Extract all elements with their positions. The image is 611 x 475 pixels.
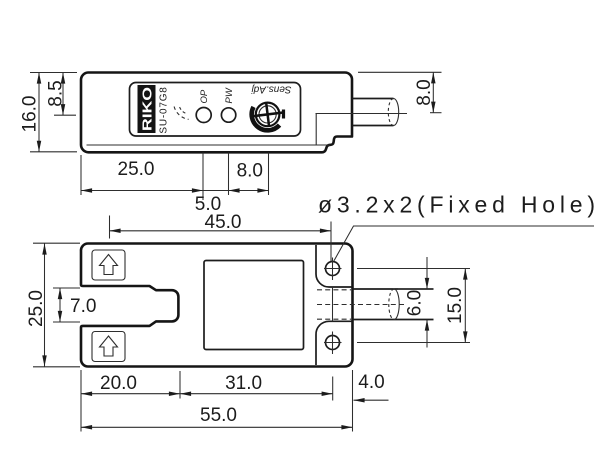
- hidden cable lines (dashed): [317, 290, 406, 319]
- arrow box bottom: [92, 332, 125, 362]
- svg-text:ø3.2x2(Fixed Hole): ø3.2x2(Fixed Hole): [318, 192, 595, 218]
- dim 8.0 (cable, right): [358, 72, 442, 112]
- svg-text:RIKO: RIKO: [141, 87, 155, 131]
- svg-text:OP: OP: [199, 89, 210, 103]
- fixed hole callout: [318, 192, 595, 261]
- PW LED: [221, 108, 235, 122]
- dim 5.0: [195, 191, 229, 216]
- svg-text:25.0: 25.0: [118, 159, 155, 180]
- OP LED: [196, 108, 211, 123]
- svg-text:15.0: 15.0: [445, 287, 466, 324]
- svg-text:25.0: 25.0: [26, 290, 47, 327]
- dim 45.0: [110, 212, 332, 261]
- sensing window: [204, 261, 304, 350]
- svg-text:55.0: 55.0: [200, 405, 237, 426]
- svg-text:20.0: 20.0: [100, 373, 137, 394]
- svg-text:8.0: 8.0: [414, 79, 435, 105]
- dim 25.0 (top view): [81, 153, 203, 201]
- label plate: [130, 83, 301, 137]
- dim 8.5: [46, 73, 77, 116]
- svg-text:16.0: 16.0: [20, 96, 41, 133]
- dim 25.0 (bottom view): [26, 243, 80, 367]
- dim 4.0: [353, 370, 389, 432]
- potentiometer: [252, 100, 286, 130]
- top view cable centerline: [316, 113, 408, 115]
- fixed hole bottom: [324, 332, 342, 355]
- dim 20.0: [81, 370, 180, 432]
- svg-text:6.0: 6.0: [405, 290, 426, 316]
- emitter arcs: [174, 107, 189, 120]
- dim 16.0: [20, 73, 78, 152]
- svg-text:4.0: 4.0: [358, 372, 384, 393]
- svg-text:8.0: 8.0: [237, 161, 263, 182]
- bottom view cable: [353, 289, 434, 320]
- dim 7.0: [53, 288, 96, 322]
- dim 6.0: [398, 257, 434, 348]
- top tab inner edge: [316, 245, 352, 287]
- dim 15.0: [357, 269, 470, 343]
- top view end-cap step line: [315, 114, 317, 145]
- svg-text:7.0: 7.0: [70, 296, 96, 317]
- svg-text:8.5: 8.5: [46, 80, 67, 106]
- fixed hole top: [324, 258, 342, 281]
- svg-text:31.0: 31.0: [225, 373, 262, 394]
- top view bottom parting line: [87, 144, 331, 146]
- dim 31.0: [180, 373, 333, 401]
- svg-text:45.0: 45.0: [205, 212, 242, 233]
- bottom tab inner edge: [316, 321, 352, 365]
- svg-text:SU-07G8: SU-07G8: [159, 86, 170, 133]
- svg-text:Sens.Adj: Sens.Adj: [251, 84, 292, 95]
- svg-text:PW: PW: [224, 87, 235, 103]
- top view body outline: [81, 73, 352, 153]
- RIKO logo block: [138, 85, 156, 133]
- hole centerline between holes: [332, 287, 334, 321]
- dim 55.0: [81, 405, 353, 427]
- arrow box top: [92, 250, 125, 280]
- dim 8.0 (top view bottom): [229, 153, 269, 196]
- top view cable: [353, 99, 399, 126]
- bottom view body outline: [81, 243, 353, 366]
